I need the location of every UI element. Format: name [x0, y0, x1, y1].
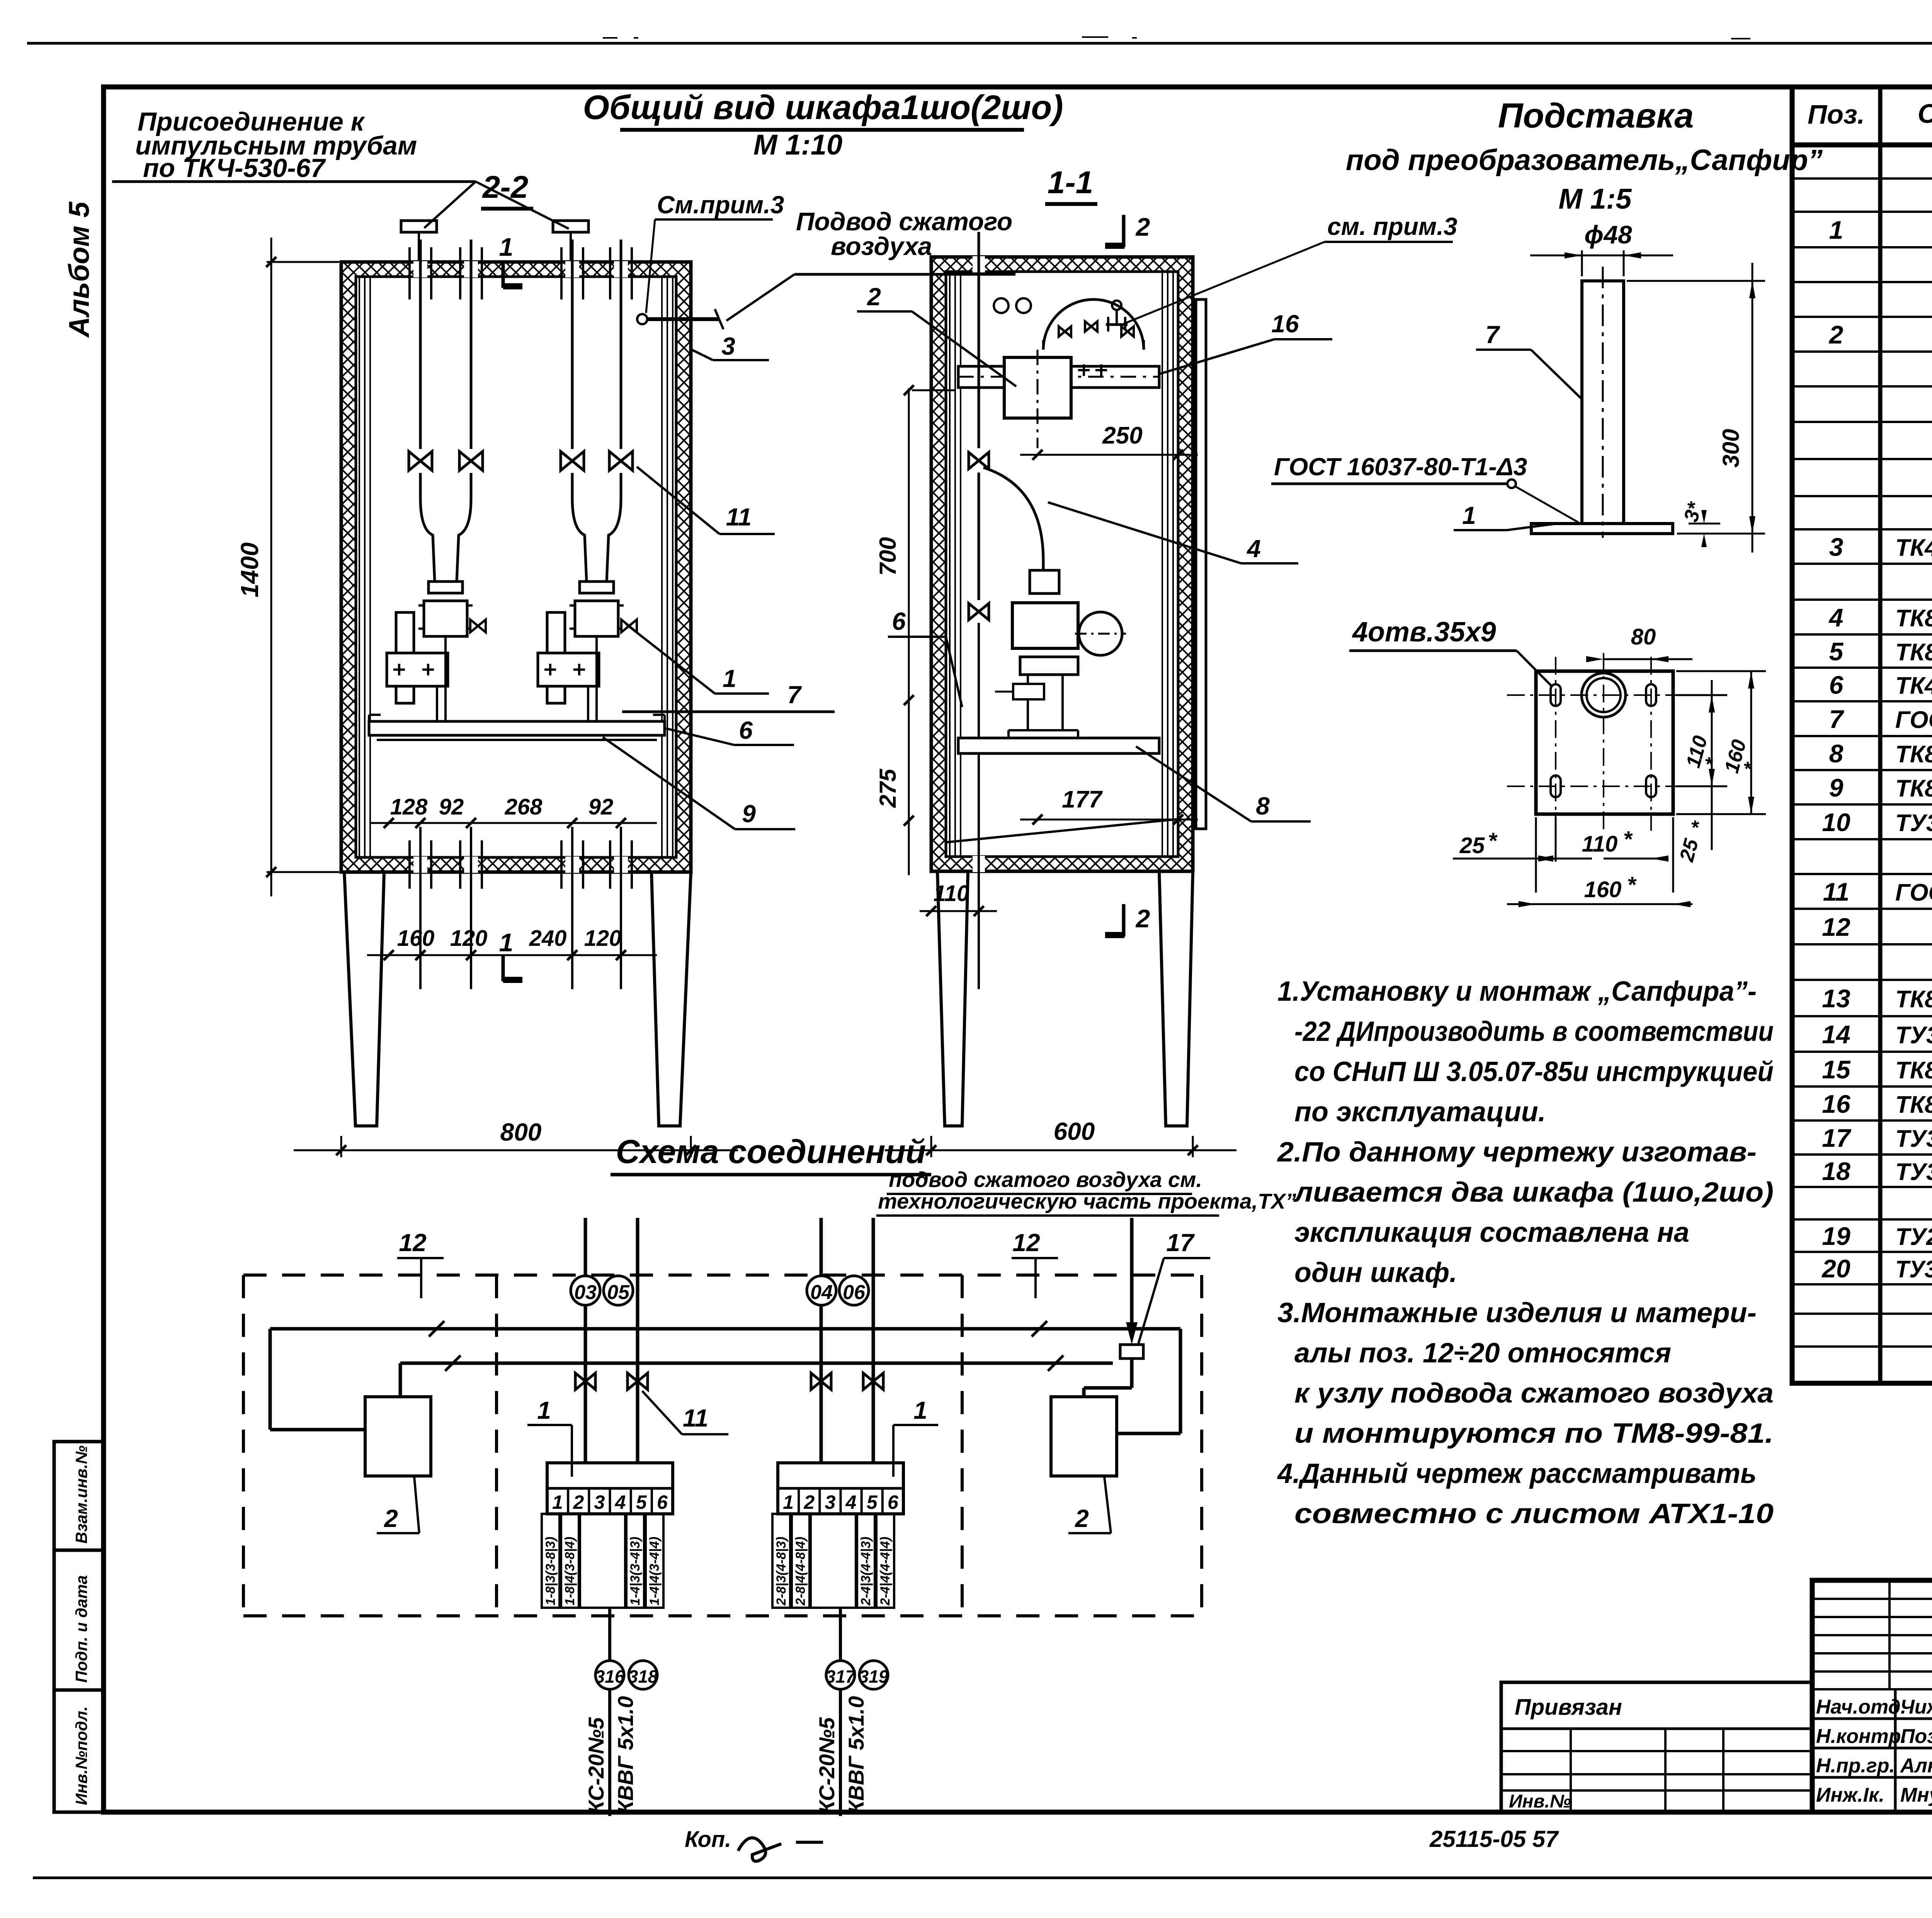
svg-text:по ТКЧ-530-67: по ТКЧ-530-67	[143, 153, 326, 183]
privyazan box	[1501, 1682, 1812, 1812]
cable strips	[542, 1514, 560, 1608]
svg-text:1-4|3(3-4|3): 1-4|3(3-4|3)	[628, 1537, 643, 1605]
svg-text:128: 128	[390, 794, 428, 820]
svg-text:10: 10	[1822, 808, 1850, 837]
junction 17	[1120, 1345, 1143, 1359]
svg-text:6: 6	[1829, 671, 1844, 699]
svg-text:ТК8-226-83: ТК8-226-83	[1895, 1092, 1932, 1118]
svg-text:1-8|3(3-8|3): 1-8|3(3-8|3)	[543, 1537, 558, 1605]
svg-text:12: 12	[399, 1229, 426, 1257]
svg-text:1: 1	[499, 928, 514, 957]
svg-text:04: 04	[810, 1281, 833, 1304]
svg-text:3: 3	[721, 332, 735, 360]
svg-text:700: 700	[875, 537, 901, 576]
cabinet 2-2 walls	[341, 262, 691, 872]
cabinet 1-1 walls	[931, 257, 1193, 871]
svg-text:ТК8-239-81: ТК8-239-81	[1895, 775, 1932, 802]
svg-text:11: 11	[726, 503, 752, 531]
svg-text:1: 1	[1829, 216, 1844, 244]
svg-text:3.Монтажные изделия и мате: 3.Монтажные изделия и матери-	[1277, 1297, 1757, 1328]
svg-text:03: 03	[574, 1281, 597, 1304]
svg-text:Общий вид шкафа1шо(2шо): Общий вид шкафа1шо(2шо)	[583, 88, 1063, 126]
svg-text:2: 2	[1828, 320, 1844, 349]
dims 700 275	[908, 388, 910, 875]
svg-text:Поз.: Поз.	[1808, 99, 1865, 129]
svg-text:Подп. и дата: Подп. и дата	[72, 1575, 90, 1683]
svg-text:11: 11	[1823, 877, 1850, 906]
rotameter assembly	[1030, 570, 1059, 593]
svg-text:Коп.: Коп.	[685, 1827, 731, 1852]
legs 1-1	[937, 871, 968, 1126]
svg-text:160: 160	[1584, 877, 1622, 902]
svg-text:Инв.№: Инв.№	[1509, 1791, 1571, 1812]
svg-text:-22 ДИпроизводить в соответс: -22 ДИпроизводить в соответствии	[1294, 1016, 1774, 1047]
svg-text:7: 7	[1829, 705, 1845, 733]
svg-text:КС-20№5: КС-20№5	[815, 1717, 839, 1814]
svg-text:1-8|4(3-8|4): 1-8|4(3-8|4)	[563, 1537, 577, 1605]
svg-text:ТК8-248-81: ТК8-248-81	[1895, 1057, 1932, 1084]
left stamp boxes	[54, 1442, 104, 1812]
dim 800	[340, 1136, 342, 1157]
stray scan dashes top	[603, 37, 617, 39]
svg-text:Инж.Iк.: Инж.Iк.	[1816, 1784, 1884, 1806]
rail with transducer 1-1	[958, 366, 1159, 388]
svg-text:3: 3	[1829, 533, 1844, 561]
svg-text:7: 7	[787, 681, 802, 709]
impulse connectors top	[401, 221, 437, 232]
terminal group wires	[820, 1218, 823, 1463]
svg-text:ТК4-3240-89: ТК4-3240-89	[1895, 673, 1932, 699]
svg-text:ТК8-246-81: ТК8-246-81	[1895, 986, 1932, 1013]
svg-text:ТУ36.22.19.06-001-87: ТУ36.22.19.06-001-87	[1895, 1256, 1932, 1283]
svg-text:4.Данный чертеж рассматрива: 4.Данный чертеж рассматривать	[1277, 1458, 1757, 1489]
svg-text:15: 15	[1822, 1055, 1851, 1084]
transducer Sapfir	[429, 582, 463, 593]
svg-text:Инв.№подл.: Инв.№подл.	[72, 1706, 90, 1805]
svg-text:4: 4	[845, 1491, 857, 1513]
svg-text:1: 1	[723, 665, 736, 692]
pipe elbows	[420, 498, 435, 582]
component 2 right	[1051, 1397, 1117, 1476]
svg-text:4: 4	[1828, 603, 1844, 632]
svg-text:2-4|4(4-4|4): 2-4|4(4-4|4)	[878, 1537, 893, 1606]
pipe 1-1	[973, 256, 985, 272]
wire A	[270, 1327, 1180, 1331]
svg-text:КВВГ 5х1.0: КВВГ 5х1.0	[613, 1696, 638, 1814]
dims right 110 160	[1676, 694, 1727, 696]
sheet top edge line	[27, 42, 1932, 45]
svg-text:1.Установку и монтаж „Сапфир: 1.Установку и монтаж „Сапфира”-	[1277, 976, 1757, 1007]
svg-text:9: 9	[742, 800, 756, 828]
svg-text:2: 2	[384, 1505, 398, 1532]
svg-text:Позднякова: Позднякова	[1900, 1725, 1932, 1748]
svg-text:см. прим.3: см. прим.3	[1327, 213, 1458, 240]
dim 1400	[270, 238, 272, 896]
svg-text:9: 9	[1829, 774, 1844, 802]
svg-text:275: 275	[875, 768, 901, 808]
svg-text:3: 3	[594, 1491, 605, 1513]
svg-text:Взам.инв.№: Взам.инв.№	[72, 1445, 90, 1544]
svg-text:Н.контр.: Н.контр.	[1816, 1725, 1906, 1748]
terminal box	[547, 1463, 673, 1514]
svg-text:12: 12	[1822, 913, 1850, 941]
svg-text:по эксплуатации.: по эксплуатации.	[1294, 1097, 1546, 1127]
svg-text:ТК8-232-81: ТК8-232-81	[1895, 605, 1932, 632]
title block	[1812, 1580, 1932, 1812]
svg-text:См.прим.3: См.прим.3	[657, 191, 784, 219]
svg-text:800: 800	[500, 1118, 542, 1146]
manifold arc	[1043, 299, 1144, 350]
svg-text:ТУ36.1130-85: ТУ36.1130-85	[1895, 810, 1932, 837]
svg-text:Привязан: Привязан	[1515, 1695, 1622, 1720]
svg-text:5: 5	[1829, 637, 1844, 666]
parts table outline	[1792, 87, 1932, 1383]
air arrow	[1130, 1218, 1134, 1334]
dim 300	[1627, 280, 1765, 282]
svg-text:алы поз. 12÷20 относятся: алы поз. 12÷20 относятся	[1294, 1338, 1671, 1369]
drop wire	[608, 1608, 611, 1816]
svg-text:Н.пр.гр.: Н.пр.гр.	[1816, 1755, 1895, 1777]
svg-text:19: 19	[1822, 1222, 1850, 1250]
svg-text:*: *	[1623, 827, 1633, 852]
svg-text:5: 5	[867, 1491, 878, 1513]
svg-text:М 1:5: М 1:5	[1558, 183, 1632, 215]
svg-text:экспликация составлена на: экспликация составлена на	[1294, 1217, 1689, 1248]
svg-text:2: 2	[573, 1491, 584, 1513]
shelf 1-1	[958, 738, 1159, 753]
svg-text:120: 120	[450, 926, 488, 951]
svg-text:177: 177	[1062, 786, 1103, 813]
svg-text:Нач.отд.: Нач.отд.	[1816, 1696, 1906, 1718]
svg-text:1: 1	[1462, 502, 1476, 529]
svg-text:7: 7	[1485, 321, 1500, 349]
air inlet connector	[637, 314, 647, 324]
svg-text:2-8|3(4-8|3): 2-8|3(4-8|3)	[774, 1537, 789, 1606]
svg-text:2: 2	[1075, 1505, 1089, 1532]
svg-text:Чижиков: Чижиков	[1900, 1696, 1932, 1718]
svg-text:воздуха: воздуха	[831, 232, 932, 260]
svg-text:268: 268	[505, 794, 543, 820]
svg-text:14: 14	[1822, 1020, 1850, 1049]
svg-text:8: 8	[1256, 792, 1270, 820]
terminal box	[778, 1463, 903, 1514]
svg-text:5: 5	[636, 1491, 647, 1513]
svg-text:ТК8-231-81: ТК8-231-81	[1895, 639, 1932, 666]
svg-text:3: 3	[825, 1491, 836, 1513]
svg-text:ϕ48: ϕ48	[1584, 220, 1632, 249]
dim 600	[930, 1136, 932, 1157]
svg-text:6: 6	[657, 1491, 668, 1513]
svg-text:110: 110	[934, 881, 969, 906]
leaders to impulse connectors	[424, 182, 476, 228]
plate plan view	[1536, 671, 1673, 814]
svg-text:ГОСТ-3262-75: ГОСТ-3262-75	[1895, 707, 1932, 733]
vent holes	[994, 298, 1009, 313]
interior lining 2-2	[359, 277, 360, 857]
svg-text:подвод сжатого воздуха см.: подвод сжатого воздуха см.	[889, 1167, 1202, 1192]
svg-text:160: 160	[397, 926, 435, 951]
svg-text:ТУ36.1124-83: ТУ36.1124-83	[1895, 1159, 1932, 1185]
transducer Sapfir	[580, 582, 614, 593]
svg-text:2.По данному чертежу изгота: 2.По данному чертежу изготав-	[1277, 1137, 1757, 1168]
svg-text:2: 2	[867, 283, 881, 311]
svg-text:и монтируются по ТМ8-99-81.: и монтируются по ТМ8-99-81.	[1294, 1418, 1774, 1449]
svg-text:18: 18	[1822, 1157, 1850, 1185]
svg-text:4: 4	[615, 1491, 626, 1513]
svg-text:92: 92	[439, 794, 464, 820]
svg-text:совместно с листом АТХ1-10: совместно с листом АТХ1-10	[1294, 1498, 1774, 1529]
svg-text:Подставка: Подставка	[1498, 97, 1694, 135]
svg-text:*: *	[1488, 828, 1498, 854]
mounting shelf 2-2	[369, 721, 665, 735]
svg-text:к узлу подвода сжатого возд: к узлу подвода сжатого воздуха	[1294, 1378, 1774, 1409]
door strip 1-1	[1196, 299, 1206, 829]
svg-text:600: 600	[1054, 1117, 1095, 1145]
legs 2-2	[344, 872, 384, 1126]
svg-text:*: *	[1627, 872, 1637, 898]
svg-text:Подвод сжатого: Подвод сжатого	[796, 207, 1012, 236]
svg-text:13: 13	[1822, 984, 1850, 1013]
svg-text:Обозначение: Обозначение	[1918, 99, 1932, 129]
svg-text:319: 319	[859, 1666, 889, 1687]
svg-text:Схема соединений: Схема соединений	[616, 1133, 926, 1170]
svg-text:12: 12	[1012, 1229, 1040, 1257]
svg-text:4: 4	[1246, 535, 1261, 563]
dim 3*	[1689, 523, 1720, 525]
component 2 left	[365, 1397, 431, 1476]
svg-text:240: 240	[529, 926, 567, 951]
dashed cabinet box	[243, 1274, 1202, 1277]
table header row	[1792, 143, 1932, 148]
svg-text:1-1: 1-1	[1048, 165, 1094, 200]
svg-text:2-4|3(4-4|3): 2-4|3(4-4|3)	[859, 1537, 873, 1606]
svg-text:один шкаф.: один шкаф.	[1294, 1257, 1457, 1288]
svg-text:2: 2	[1135, 213, 1150, 241]
wire B	[400, 1362, 1113, 1365]
podstavka tube	[1582, 281, 1624, 524]
svg-text:1: 1	[913, 1396, 927, 1424]
svg-text:1: 1	[537, 1396, 551, 1424]
svg-text:под преобразователь„Сапфир”: под преобразователь„Сапфир”	[1346, 144, 1823, 177]
svg-text:80: 80	[1631, 624, 1656, 650]
svg-text:300: 300	[1718, 429, 1744, 468]
svg-text:06: 06	[843, 1281, 866, 1304]
svg-text:6: 6	[888, 1491, 899, 1513]
svg-text:16: 16	[1271, 310, 1299, 338]
cable strips	[772, 1514, 790, 1608]
terminal group wires	[584, 1218, 587, 1463]
svg-text:20: 20	[1821, 1254, 1850, 1283]
svg-text:Мнускина: Мнускина	[1900, 1784, 1932, 1806]
svg-text:1: 1	[499, 233, 514, 261]
svg-text:317: 317	[826, 1666, 856, 1687]
svg-text:11: 11	[683, 1404, 708, 1432]
svg-text:со СНиП Ш 3.05.07-85и инструк: со СНиП Ш 3.05.07-85и инструкцией	[1294, 1056, 1774, 1087]
svg-text:17: 17	[1822, 1124, 1852, 1152]
svg-text:25115-05 57: 25115-05 57	[1429, 1826, 1559, 1852]
svg-text:05: 05	[607, 1281, 630, 1304]
svg-text:120: 120	[584, 926, 622, 951]
svg-text:1: 1	[552, 1491, 563, 1513]
svg-text:2-8|4(4-8|4): 2-8|4(4-8|4)	[793, 1537, 808, 1606]
svg-text:1: 1	[783, 1491, 794, 1513]
sheet bottom edge line	[33, 1877, 1932, 1879]
svg-text:6: 6	[892, 607, 906, 635]
svg-text:ливается два шкафа (1шо,2шо): ливается два шкафа (1шо,2шо)	[1293, 1177, 1774, 1208]
slanted floor line	[946, 819, 1178, 842]
svg-text:16: 16	[1822, 1090, 1851, 1118]
svg-text:8: 8	[1829, 739, 1844, 768]
interior lining 1-1	[949, 272, 951, 857]
drop wire	[839, 1608, 842, 1816]
svg-text:Альбом 5: Альбом 5	[63, 201, 95, 338]
svg-text:ТУ26.07-270-80: ТУ26.07-270-80	[1895, 1224, 1932, 1250]
pipes 2-2	[413, 261, 427, 277]
svg-text:ГОСТ 16037-80-Т1-Δ3: ГОСТ 16037-80-Т1-Δ3	[1274, 453, 1527, 481]
svg-text:318: 318	[628, 1666, 658, 1687]
svg-text:ТУ36.1118-84: ТУ36.1118-84	[1895, 1022, 1932, 1049]
svg-text:4отв.35х9: 4отв.35х9	[1352, 617, 1496, 648]
svg-text:Алкина: Алкина	[1900, 1755, 1932, 1777]
svg-text:316: 316	[595, 1666, 625, 1687]
svg-text:2: 2	[1135, 904, 1150, 933]
svg-text:ТК4-2066-77: ТК4-2066-77	[1895, 535, 1932, 561]
svg-text:92: 92	[588, 794, 614, 820]
svg-text:25: 25	[1459, 833, 1485, 858]
svg-text:М 1:10: М 1:10	[753, 129, 842, 161]
svg-text:ТК8-226-83: ТК8-226-83	[1895, 741, 1932, 768]
svg-text:17: 17	[1166, 1229, 1195, 1257]
svg-text:1-4|4(3-4|4): 1-4|4(3-4|4)	[647, 1537, 662, 1605]
svg-text:1400: 1400	[236, 542, 264, 597]
base plate	[1531, 524, 1673, 534]
svg-text:ТУ36.1116-83: ТУ36.1116-83	[1895, 1126, 1932, 1152]
dims bottom 25 110 160	[1535, 817, 1537, 893]
svg-text:2: 2	[803, 1491, 815, 1513]
svg-text:ГОСТ 5761-74: ГОСТ 5761-74	[1895, 879, 1932, 906]
svg-text:КС-20№5: КС-20№5	[584, 1717, 608, 1814]
curved pipe to rotameter	[983, 468, 1043, 580]
svg-text:6: 6	[739, 716, 753, 744]
svg-text:КВВГ 5х1.0: КВВГ 5х1.0	[844, 1696, 868, 1814]
svg-text:250: 250	[1102, 422, 1142, 449]
svg-text:110: 110	[1582, 831, 1617, 857]
svg-text:технологическую часть проекта,: технологическую часть проекта,ТХ”	[878, 1189, 1296, 1213]
